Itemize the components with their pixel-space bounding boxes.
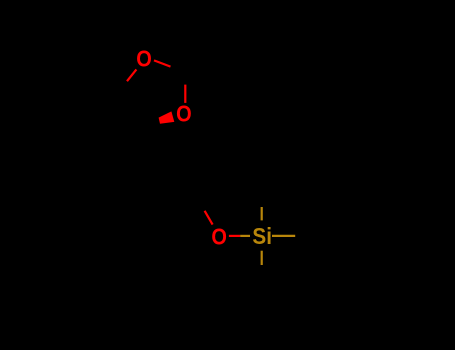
svg-text:Si: Si [252, 223, 272, 249]
svg-text:O: O [176, 101, 192, 126]
svg-text:O: O [136, 46, 152, 71]
svg-text:O: O [211, 224, 227, 249]
